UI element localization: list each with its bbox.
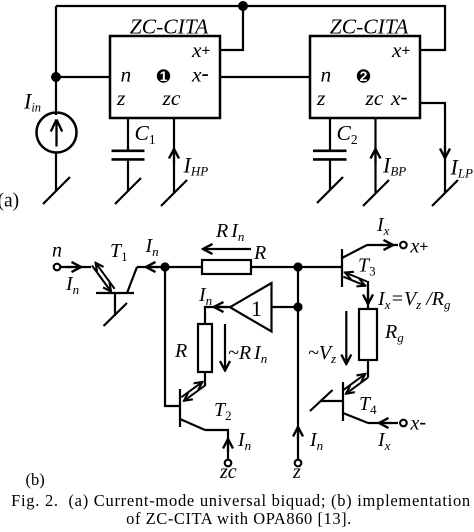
node junction on top bus — [238, 1, 248, 11]
transistor T1 — [96, 292, 134, 294]
node n terminal — [54, 264, 61, 271]
arrow In on z line — [297, 427, 299, 440]
svg-text:(a): (a) — [0, 191, 19, 212]
svg-text:Ix: Ix — [377, 429, 391, 453]
node zc terminal — [225, 460, 232, 467]
svg-text:ZC-CITA: ZC-CITA — [330, 15, 409, 39]
svg-text:In: In — [237, 429, 251, 453]
svg-text:zc: zc — [219, 461, 237, 483]
node buffer junction — [293, 302, 302, 311]
svg-text:T1: T1 — [110, 240, 128, 264]
op-amp block ZC-CITA 1 — [110, 36, 220, 118]
ground C1 — [115, 178, 141, 204]
svg-text:z: z — [116, 86, 126, 110]
svg-text:zc: zc — [162, 86, 181, 110]
wire R to T2 emitter — [204, 372, 206, 386]
ground Iin — [43, 177, 70, 204]
svg-text:IBP: IBP — [382, 153, 406, 179]
svg-text:Ix: Ix — [376, 214, 390, 238]
wire resistor R to node z — [251, 266, 298, 268]
svg-text:T3: T3 — [358, 255, 376, 279]
svg-text:Iin: Iin — [23, 89, 41, 115]
svg-text:1: 1 — [251, 296, 262, 321]
wire zc block2 down (IBP) — [374, 118, 376, 193]
node z terminal — [295, 460, 302, 467]
arrow ~Vz — [345, 311, 347, 364]
svg-text:Fig. 2. (a) Current-mode univ: Fig. 2. (a) Current-mode universal biqua… — [11, 491, 471, 510]
wire z vertical line — [297, 267, 299, 459]
svg-text:z: z — [316, 86, 326, 110]
wire below Iin source — [55, 153, 57, 192]
node In junction — [160, 262, 169, 271]
svg-text:n: n — [52, 240, 62, 262]
resistor R vertical — [198, 324, 212, 372]
svg-text:n: n — [121, 63, 132, 87]
wire T4 base to ground — [320, 400, 343, 402]
capacitor C1 — [112, 150, 145, 153]
number 2 — [357, 69, 370, 82]
wire T3 emitter down to Rg — [367, 281, 369, 309]
op-amp block ZC-CITA 2 — [310, 36, 420, 118]
svg-text:x-: x- — [390, 85, 408, 111]
resistor R horizontal — [202, 260, 251, 274]
buffer 1 — [230, 283, 272, 332]
number 1 — [157, 69, 170, 82]
node junction at Iin — [51, 72, 61, 82]
wire z block1 down — [127, 118, 129, 151]
arrow RIn above resistor — [203, 248, 251, 250]
wire node In down to T2 base — [165, 267, 180, 406]
svg-text:n: n — [321, 63, 332, 87]
svg-text:zc: zc — [365, 86, 384, 110]
svg-text:In: In — [65, 273, 79, 297]
svg-text:of ZC-CITA with OPA860 [13].: of ZC-CITA with OPA860 [13]. — [126, 509, 352, 528]
svg-text:x+: x+ — [191, 38, 211, 62]
svg-text:In: In — [198, 284, 212, 308]
svg-text:Rg: Rg — [384, 321, 404, 345]
ground ILP — [432, 180, 458, 206]
svg-text:In: In — [145, 235, 159, 259]
svg-text:R: R — [253, 242, 266, 264]
node x- terminal — [400, 420, 407, 427]
wire node to resistor R — [165, 266, 202, 268]
wire left vertical from top bus to Iin source — [55, 6, 57, 115]
svg-text:2: 2 — [360, 68, 368, 84]
capacitor C2 — [313, 150, 347, 153]
node x+ terminal — [400, 242, 407, 249]
ground IHP — [161, 180, 187, 206]
svg-text:x-: x- — [191, 61, 209, 87]
wire below C2 — [329, 159, 331, 190]
wire z block2 down — [329, 118, 331, 151]
node z top junction — [293, 262, 302, 271]
current source Iin — [37, 113, 77, 153]
svg-text:~RIn: ~RIn — [228, 342, 267, 366]
wire Rg to T4 emitter — [367, 360, 369, 378]
svg-text:~Vz: ~Vz — [308, 342, 336, 366]
svg-text:IHP: IHP — [183, 153, 209, 179]
svg-text:C1: C1 — [135, 121, 156, 147]
svg-text:T2: T2 — [214, 399, 232, 423]
transistor T3 — [341, 249, 343, 287]
wire n input — [61, 266, 91, 268]
svg-text:ZC-CITA: ZC-CITA — [130, 15, 209, 39]
wire T1 collector to node In — [137, 266, 165, 268]
wire T1 base to ground — [114, 293, 116, 316]
wire buffer output — [205, 307, 230, 324]
svg-text:x+: x+ — [410, 236, 429, 258]
wire x- block2 down (ILP) — [420, 103, 445, 193]
svg-text:RIn: RIn — [215, 220, 244, 244]
transistor T2 — [179, 389, 181, 427]
wire top bus from Iin node to x+ of block 2 — [56, 6, 445, 50]
svg-text:x+: x+ — [391, 38, 411, 62]
resistor Rg — [359, 309, 377, 360]
wire T2 collector to zc — [205, 430, 228, 459]
svg-text:z: z — [292, 461, 301, 483]
svg-text:C2: C2 — [337, 121, 358, 147]
wire x- block1 to n block2 — [220, 76, 310, 78]
arrow ~RIn — [224, 324, 226, 371]
wire x+ of block1 up to top bus — [220, 6, 243, 50]
ground T4 — [310, 390, 333, 411]
wire T3 collector to x+ — [367, 244, 398, 246]
transistor T4 — [342, 382, 344, 421]
svg-text:1: 1 — [160, 68, 168, 84]
svg-text:ILP: ILP — [450, 155, 474, 181]
svg-text:T4: T4 — [359, 393, 377, 417]
wire buffer input — [272, 306, 298, 308]
ground C2 — [317, 177, 343, 203]
ground IBP — [363, 180, 389, 206]
wire T4 collector to x- — [368, 422, 398, 424]
svg-text:x-: x- — [410, 412, 427, 435]
wire below C1 — [127, 159, 129, 191]
ground T1 — [104, 303, 128, 326]
wire n input to block 1 — [56, 76, 110, 78]
wire zc block1 down (IHP) — [173, 118, 175, 193]
svg-text:(b): (b) — [26, 470, 45, 489]
svg-text:Ix=Vz /Rg: Ix=Vz /Rg — [377, 288, 451, 312]
svg-text:In: In — [309, 429, 323, 453]
svg-text:R: R — [174, 340, 187, 362]
wire T3 base — [298, 266, 342, 268]
